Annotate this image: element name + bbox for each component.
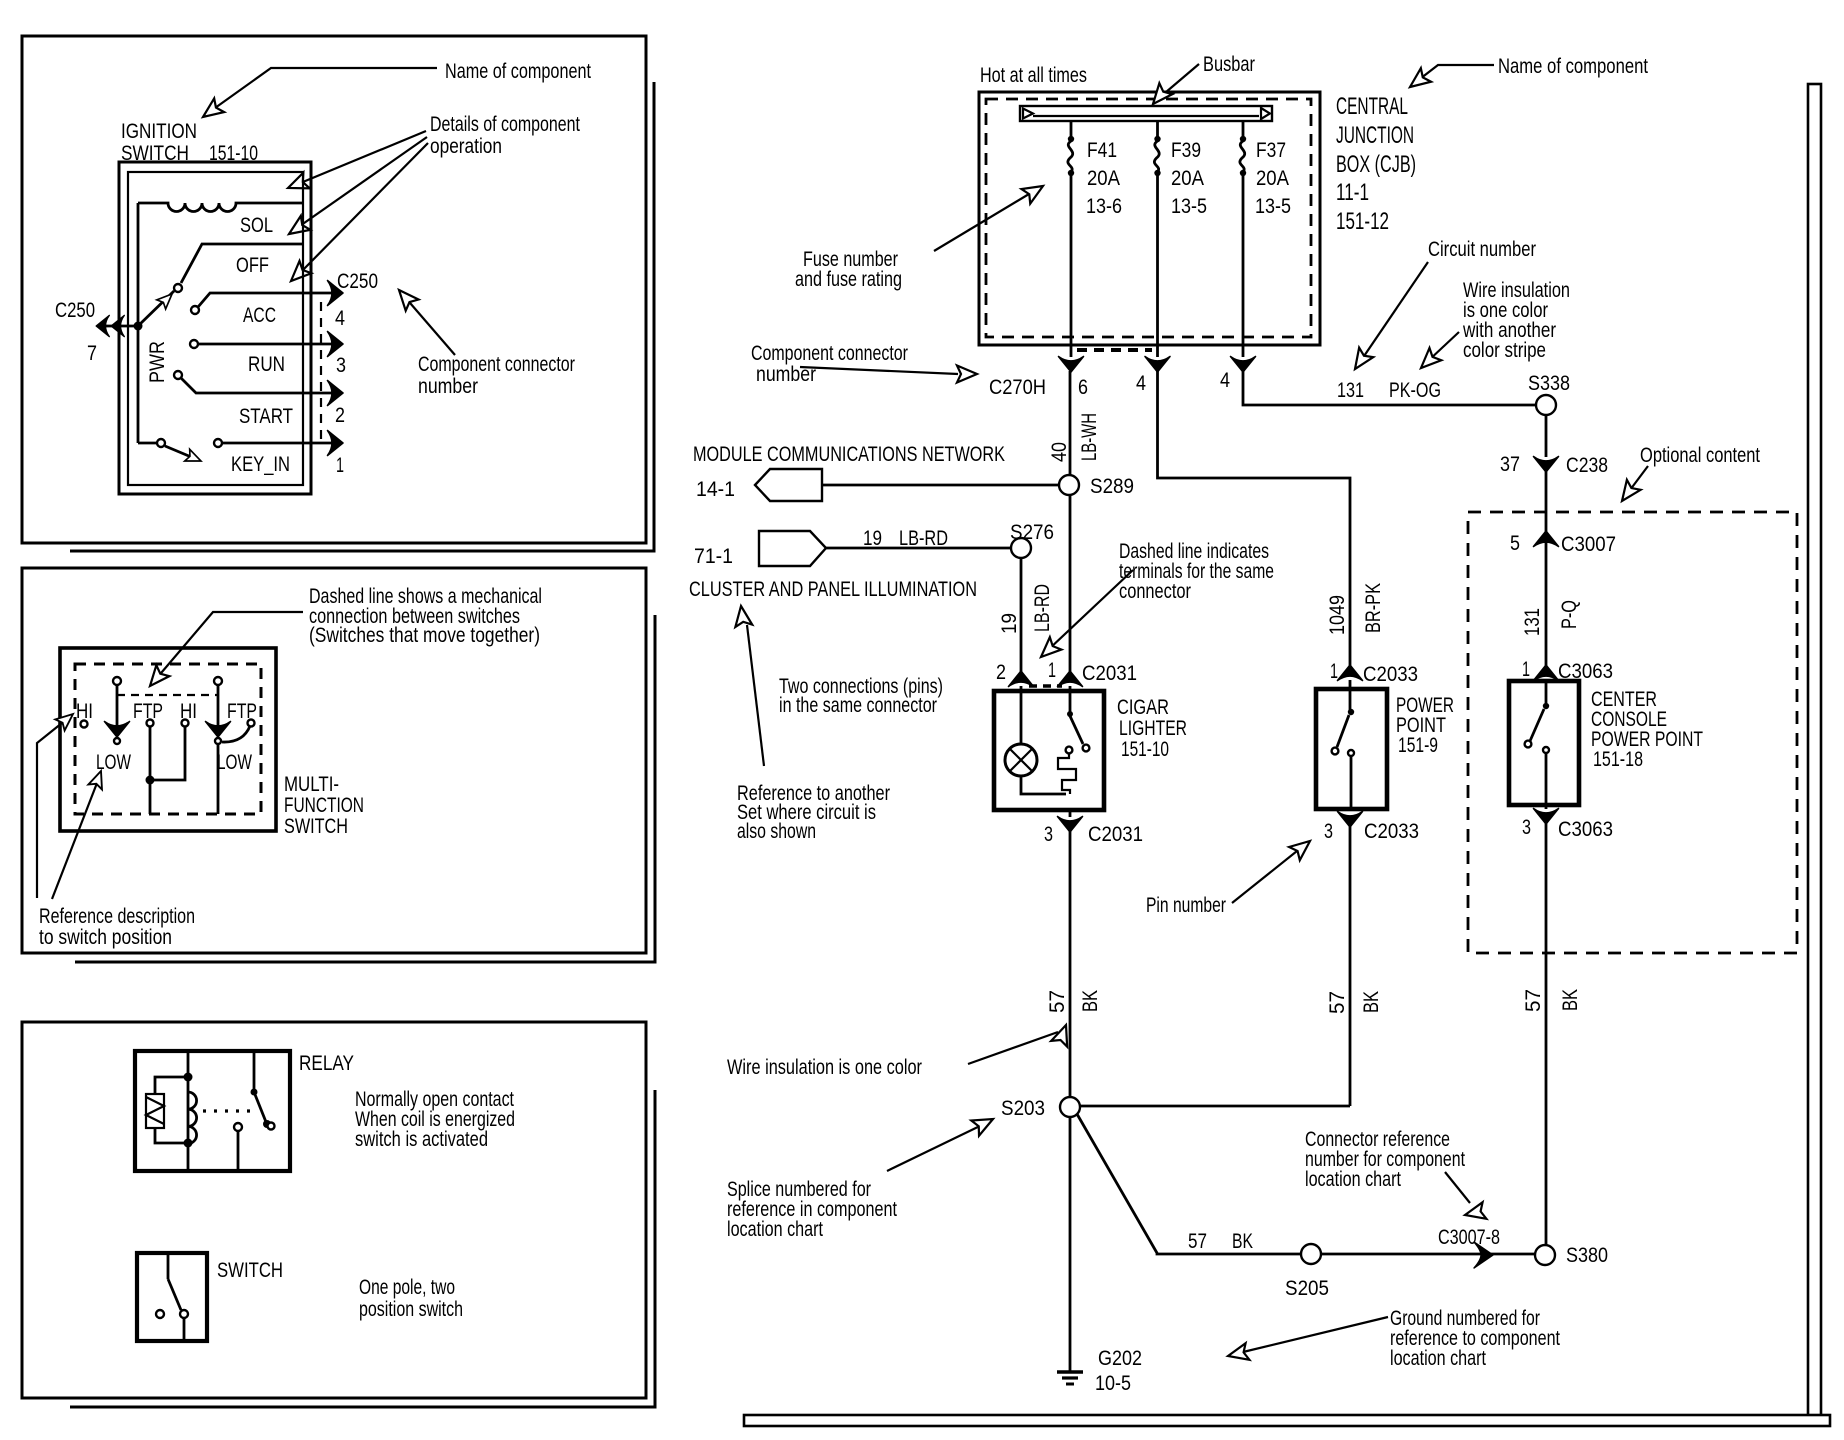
svg-text:1: 1: [1522, 658, 1530, 681]
svg-text:151-10: 151-10: [209, 142, 258, 165]
switch 1 top contact: [113, 677, 121, 685]
svg-text:C270H: C270H: [989, 376, 1046, 399]
svg-text:2: 2: [996, 661, 1006, 684]
relay coil bumps: [188, 1092, 197, 1144]
svg-text:OFF: OFF: [236, 254, 269, 277]
svg-text:switch is activated: switch is activated: [355, 1128, 488, 1151]
power point box: [1316, 689, 1387, 809]
svg-text:Component connector: Component connector: [751, 342, 908, 365]
svg-text:2: 2: [335, 404, 345, 427]
wire power point to S203 wire (57 BK): [1349, 826, 1352, 1106]
svg-text:S205: S205: [1285, 1277, 1329, 1300]
svg-text:G202: G202: [1098, 1347, 1142, 1370]
wire into power point: [1349, 680, 1352, 710]
svg-text:BK: BK: [1232, 1230, 1253, 1253]
svg-text:LB-RD: LB-RD: [1031, 584, 1054, 632]
wire down to S380 (57 BK): [1545, 823, 1548, 1244]
svg-text:connector: connector: [1119, 580, 1191, 603]
wire S203 diagonal to S205: [1077, 1114, 1301, 1254]
label 131 rotated: [1521, 608, 1544, 636]
power point switch arm: [1337, 715, 1349, 747]
wire from C270H pin 6 to S289: [1069, 371, 1072, 475]
leader arrow to CJB name: [1416, 65, 1494, 82]
leader arrow to fuse area: [934, 191, 1034, 251]
relay switch pivot dot: [251, 1089, 258, 1096]
relay coil top wire: [155, 1077, 188, 1094]
svg-text:5: 5: [1510, 532, 1520, 555]
label 57 rotated: [1522, 989, 1545, 1012]
HI 2 contact circle: [182, 720, 189, 727]
svg-text:RELAY: RELAY: [299, 1052, 354, 1075]
svg-text:4: 4: [1136, 372, 1146, 395]
FTP 2 contact circle: [248, 720, 255, 727]
svg-text:13-6: 13-6: [1086, 195, 1122, 218]
relay contact circle: [234, 1123, 242, 1131]
wire from F37 to splice S338 (131 PK-OG): [1243, 371, 1536, 405]
svg-text:C250: C250: [55, 299, 95, 322]
busbar: [1020, 106, 1272, 121]
svg-text:location chart: location chart: [1305, 1168, 1401, 1191]
svg-text:13-5: 13-5: [1255, 195, 1291, 218]
KEY_IN wire to pin 1: [222, 442, 338, 445]
svg-text:11-1: 11-1: [1336, 179, 1369, 206]
KEY_IN bus stub wire: [138, 442, 157, 445]
OFF contact wire: [181, 244, 303, 283]
OFF contact circle: [174, 284, 182, 292]
svg-text:JUNCTION: JUNCTION: [1336, 122, 1414, 149]
ignition switch inner box: [128, 172, 303, 485]
legend panel 1 shadow: [70, 82, 654, 551]
connector C250 dashed line: [320, 302, 322, 445]
mechanical connection dashed line: [117, 694, 218, 696]
svg-text:19: 19: [998, 613, 1021, 634]
leader arrow 1 (to HI): [37, 723, 62, 898]
svg-text:C3007: C3007: [1561, 533, 1616, 556]
svg-text:C2033: C2033: [1364, 820, 1419, 843]
switch arm: [1070, 716, 1083, 744]
junction dot: [184, 1139, 193, 1148]
label 1049 rotated: [1326, 595, 1349, 635]
START contact circle: [174, 371, 182, 379]
junction node (PWR / C250 pin 7): [134, 322, 143, 331]
svg-text:Hot at all times: Hot at all times: [980, 64, 1087, 87]
switch bottom wire: [183, 1318, 186, 1341]
switch pole wire: [167, 1253, 170, 1279]
wire cigar lighter to S203 (57 BK): [1069, 831, 1072, 1097]
heating element: [1058, 753, 1076, 794]
switch arm tip circle: [180, 1310, 188, 1318]
leader arrow to circuit number 131: [1360, 262, 1428, 362]
optional content dashed box: [1468, 512, 1797, 953]
svg-text:C3063: C3063: [1558, 818, 1613, 841]
svg-text:4: 4: [1220, 369, 1230, 392]
svg-text:Reference description: Reference description: [39, 905, 195, 928]
START wire to pin 2: [181, 378, 338, 393]
wire from F39 to power point: [1158, 371, 1351, 666]
svg-text:P-Q: P-Q: [1558, 600, 1581, 629]
svg-text:BOX (CJB): BOX (CJB): [1336, 151, 1416, 178]
svg-text:151-9: 151-9: [1398, 734, 1438, 757]
svg-text:BK: BK: [1559, 989, 1582, 1011]
wire below fuse F39: [1156, 175, 1159, 357]
svg-text:location chart: location chart: [727, 1218, 823, 1241]
leader arrow to optional box: [1627, 466, 1648, 494]
svg-text:MULTI-: MULTI-: [284, 773, 339, 796]
wire out of power point: [1350, 756, 1353, 809]
heating element contact: [1066, 747, 1073, 754]
switch 2 wire down: [217, 744, 220, 814]
switch 2 arm wire: [217, 685, 220, 728]
ACC wire to pin 4: [198, 293, 338, 307]
switch arm: [168, 1279, 181, 1310]
svg-text:BK: BK: [1079, 990, 1102, 1012]
svg-text:S276: S276: [1010, 521, 1054, 544]
svg-text:Name of component: Name of component: [1498, 55, 1648, 78]
svg-text:Optional content: Optional content: [1640, 444, 1760, 467]
junction dot: [184, 1073, 193, 1082]
label LB-RD rotated: [1031, 584, 1054, 632]
label 57 rotated: [1326, 991, 1349, 1014]
leader arrow 2 (to OFF contact): [297, 137, 427, 228]
svg-text:57: 57: [1522, 989, 1545, 1012]
svg-text:C238: C238: [1566, 454, 1608, 477]
svg-text:151-10: 151-10: [1121, 738, 1169, 761]
right panel bottom border: [744, 1415, 1830, 1426]
wire into box: [1545, 680, 1548, 703]
svg-text:S203: S203: [1001, 1097, 1045, 1120]
PWR rotated label: [146, 341, 169, 383]
relay switch arm: [254, 1092, 266, 1122]
svg-text:and fuse rating: and fuse rating: [795, 268, 902, 291]
wire C3007 down (131 P-Q): [1545, 546, 1548, 666]
switch S1 box: [137, 1253, 207, 1341]
svg-text:20A: 20A: [1171, 167, 1204, 190]
switch 1 arm wire: [116, 685, 119, 728]
splice S289: [1059, 475, 1079, 495]
svg-text:(Switches that move together): (Switches that move together): [309, 624, 540, 647]
leader arrow to pin 3: [1232, 847, 1302, 903]
svg-text:color stripe: color stripe: [1463, 339, 1546, 362]
svg-text:131: 131: [1337, 379, 1364, 402]
svg-text:Name of component: Name of component: [445, 60, 591, 83]
svg-text:in the same connector: in the same connector: [779, 694, 937, 717]
switch contact: [1543, 747, 1549, 753]
svg-text:F41: F41: [1087, 139, 1117, 162]
legend panel 2 frame: [22, 568, 646, 953]
svg-text:40: 40: [1048, 442, 1071, 462]
KEY_IN switch arm: [165, 446, 196, 459]
leader arrow to PK-OG: [1428, 332, 1459, 361]
multifunction switch dashed outline: [75, 664, 261, 814]
wire out of cigar lighter: [1069, 810, 1072, 817]
splice S203: [1060, 1097, 1080, 1117]
KEY_IN switch contact circle: [157, 439, 165, 447]
switch arm: [1530, 709, 1544, 741]
fuse F41 20A: [1070, 121, 1073, 138]
FTP contact circle: [147, 720, 154, 727]
svg-text:to switch position: to switch position: [39, 926, 172, 949]
wire to splice S276 (19 LB-RD): [826, 547, 1011, 550]
svg-text:14-1: 14-1: [696, 478, 735, 501]
leader arrow from Reference text to CLUSTER: [747, 625, 764, 766]
svg-text:3: 3: [336, 354, 346, 377]
svg-text:Circuit number: Circuit number: [1428, 238, 1536, 261]
svg-text:1049: 1049: [1326, 595, 1349, 635]
switch 2 top contact: [214, 677, 222, 685]
svg-text:MODULE COMMUNICATIONS NETWORK: MODULE COMMUNICATIONS NETWORK: [693, 443, 1005, 466]
svg-text:SWITCH: SWITCH: [121, 142, 189, 165]
svg-text:C2033: C2033: [1363, 663, 1418, 686]
junction dot: [146, 776, 155, 785]
svg-text:3: 3: [1522, 816, 1531, 839]
svg-text:131: 131: [1521, 608, 1544, 636]
svg-text:151-18: 151-18: [1593, 748, 1643, 771]
svg-text:CLUSTER AND PANEL ILLUMINATION: CLUSTER AND PANEL ILLUMINATION: [689, 578, 977, 601]
right panel right border: [1808, 84, 1821, 1418]
svg-text:20A: 20A: [1087, 167, 1120, 190]
HI contact circle: [81, 721, 88, 728]
leader arrow to ground: [1243, 1317, 1388, 1352]
cigar lighter box: [994, 691, 1104, 810]
HI 2 wire elbow: [150, 727, 185, 780]
leader arrow to C270H: [800, 367, 958, 374]
connector C270H dashed line: [1077, 348, 1152, 352]
switch 1 arm tip circle: [114, 738, 120, 744]
svg-text:C3007-8: C3007-8: [1438, 1226, 1500, 1249]
FTP wire down: [149, 727, 152, 814]
svg-text:57: 57: [1046, 990, 1069, 1013]
connector C2031 dashed line: [1029, 684, 1062, 688]
wire out of box: [1545, 753, 1548, 809]
svg-text:SWITCH: SWITCH: [217, 1259, 283, 1282]
svg-text:57: 57: [1326, 991, 1349, 1014]
leader arrow 3 (to ACC contact): [299, 143, 428, 274]
svg-text:position switch: position switch: [359, 1298, 463, 1321]
wire S289 down to C2031 pin 1: [1069, 495, 1072, 672]
svg-text:operation: operation: [430, 135, 502, 158]
power point contact: [1348, 750, 1354, 756]
lamp bottom wire: [1021, 776, 1066, 794]
switch wire from pin 1: [1069, 686, 1072, 712]
svg-text:LB-RD: LB-RD: [899, 527, 948, 550]
svg-text:C250: C250: [337, 270, 378, 293]
svg-text:7: 7: [87, 342, 97, 365]
svg-text:RUN: RUN: [248, 353, 285, 376]
relay arm tip dot and circle: [263, 1120, 271, 1128]
center console power point box: [1509, 681, 1579, 805]
relay K1 box: [135, 1051, 290, 1171]
svg-text:1: 1: [1048, 659, 1056, 682]
svg-text:One pole, two: One pole, two: [359, 1276, 455, 1299]
relay mechanical dotted link: [203, 1109, 250, 1112]
wire C238 to C3007: [1545, 471, 1548, 546]
svg-text:KEY_IN: KEY_IN: [231, 453, 290, 476]
wire to connector C250 pin 7: [100, 325, 138, 328]
label BK rotated: [1360, 991, 1383, 1013]
svg-text:CENTRAL: CENTRAL: [1336, 93, 1408, 120]
relay coil resistance element: [146, 1094, 164, 1128]
svg-text:Details of component: Details of component: [430, 113, 580, 136]
svg-text:ACC: ACC: [243, 304, 276, 327]
svg-text:number: number: [418, 375, 478, 398]
svg-text:4: 4: [335, 307, 345, 330]
svg-text:71-1: 71-1: [694, 545, 733, 568]
switch open contact circle: [156, 1310, 164, 1318]
leader arrow to mechanical dashed line: [156, 612, 303, 679]
svg-text:Busbar: Busbar: [1203, 53, 1255, 76]
switch pivot dot: [1543, 703, 1549, 709]
splice S276: [1011, 538, 1031, 558]
FTP 2 curved arm: [222, 726, 250, 742]
wire pin2 to lamp: [1020, 686, 1023, 744]
label BR-PK rotated: [1362, 583, 1385, 633]
svg-text:57: 57: [1188, 1230, 1207, 1253]
ground G202 symbol: [1057, 1370, 1083, 1373]
fuse F39 20A: [1156, 121, 1159, 138]
splice S205: [1301, 1244, 1321, 1264]
label BK rotated: [1079, 990, 1102, 1012]
leader arrow to 57 BK wire: [968, 1032, 1058, 1064]
svg-text:START: START: [239, 405, 293, 428]
leader arrow to busbar: [1159, 64, 1199, 98]
wire S203 to power point branch: [1080, 1105, 1350, 1108]
wire to splice S289 (40 LB-WH): [822, 484, 1059, 487]
svg-text:IGNITION: IGNITION: [121, 120, 197, 143]
svg-text:SOL: SOL: [240, 214, 273, 237]
svg-text:also shown: also shown: [737, 820, 816, 843]
label LB-WH rotated: [1078, 413, 1101, 461]
svg-text:3: 3: [1044, 823, 1053, 846]
leader arrow to C3007-8: [1445, 1172, 1470, 1203]
svg-text:Wire insulation is one color: Wire insulation is one color: [727, 1056, 922, 1079]
svg-text:13-5: 13-5: [1171, 195, 1207, 218]
svg-text:C2031: C2031: [1088, 823, 1143, 846]
svg-text:1: 1: [1330, 660, 1338, 683]
solenoid coil SOL: [138, 203, 303, 212]
legend panel 1 frame: [22, 36, 646, 543]
legend panel 3 frame: [22, 1022, 646, 1398]
leader arrow to C2031 dashed line: [1048, 570, 1133, 650]
central junction box CJB outline: [979, 92, 1320, 345]
off-page reference pentagon 14-1: [755, 469, 822, 501]
svg-text:S338: S338: [1528, 372, 1570, 395]
wire S205 to S380: [1321, 1253, 1534, 1256]
svg-text:Pin number: Pin number: [1146, 894, 1226, 917]
svg-text:PWR: PWR: [146, 341, 169, 383]
KEY_IN contact circle: [214, 439, 222, 447]
label 57 rotated: [1046, 990, 1069, 1013]
svg-text:SWITCH: SWITCH: [284, 815, 348, 838]
lamp (illumination bulb): [1005, 744, 1037, 776]
svg-text:S380: S380: [1566, 1244, 1608, 1267]
svg-text:F37: F37: [1256, 139, 1286, 162]
ignition switch U1 outer box: [119, 162, 311, 494]
label P-Q rotated: [1558, 600, 1581, 629]
svg-text:3: 3: [1324, 820, 1333, 843]
svg-text:F39: F39: [1171, 139, 1201, 162]
svg-text:PK-OG: PK-OG: [1389, 379, 1441, 402]
RUN contact circle: [190, 340, 198, 348]
svg-text:1: 1: [336, 454, 344, 477]
connector C3007-8 arrow on wire: [1474, 1242, 1493, 1268]
svg-text:Component connector: Component connector: [418, 353, 575, 376]
relay contact wire: [237, 1131, 240, 1171]
relay coil bus wire: [187, 1051, 190, 1171]
fuse F37 20A: [1242, 121, 1245, 138]
svg-text:CIGAR: CIGAR: [1117, 696, 1169, 719]
svg-text:6: 6: [1078, 376, 1088, 399]
svg-text:37: 37: [1500, 453, 1520, 476]
svg-text:19: 19: [863, 527, 882, 550]
leader arrow to ignition switch: [208, 68, 437, 113]
svg-text:BK: BK: [1360, 991, 1383, 1013]
svg-text:151-12: 151-12: [1336, 208, 1389, 235]
svg-text:LB-WH: LB-WH: [1078, 413, 1101, 461]
wire S276 down to C2031 pin 2: [1020, 558, 1023, 672]
svg-text:S289: S289: [1090, 475, 1134, 498]
wire below fuse F41: [1070, 175, 1073, 357]
svg-text:10-5: 10-5: [1095, 1372, 1131, 1395]
svg-text:LIGHTER: LIGHTER: [1119, 717, 1187, 740]
relay switch pole wire: [253, 1051, 256, 1090]
multifunction switch box: [60, 648, 276, 831]
off-page reference pentagon 71-1: [759, 531, 826, 566]
ACC contact circle: [191, 306, 199, 314]
svg-text:LOW: LOW: [217, 751, 252, 774]
RUN wire to pin 3: [198, 343, 338, 346]
legend panel 2 shadow: [75, 615, 655, 962]
CJB dashed outline: [986, 99, 1311, 337]
svg-text:location chart: location chart: [1390, 1347, 1486, 1370]
label 19 rotated: [998, 613, 1021, 634]
splice S338: [1536, 395, 1556, 415]
svg-text:20A: 20A: [1256, 167, 1289, 190]
svg-text:FUNCTION: FUNCTION: [284, 794, 364, 817]
svg-text:BR-PK: BR-PK: [1362, 583, 1385, 633]
switch 2 arm tip circle: [215, 738, 221, 744]
splice S380: [1535, 1245, 1555, 1265]
svg-text:C2031: C2031: [1082, 662, 1137, 685]
wire S203 to ground G202: [1069, 1117, 1072, 1371]
wire below fuse F37: [1242, 175, 1245, 357]
leader arrow to C250: [404, 296, 455, 355]
leader arrow 1 (to coil): [298, 131, 426, 184]
relay coil bottom wire: [155, 1128, 188, 1143]
label 40 rotated: [1048, 442, 1071, 462]
ignition switch left bus wire: [137, 203, 140, 443]
label BK rotated: [1559, 989, 1582, 1011]
legend panel 3 shadow: [70, 1090, 655, 1407]
wire S338 to C238: [1545, 415, 1548, 457]
leader arrow to S203 (splice numbered): [887, 1124, 984, 1171]
PWR switch arm: [138, 291, 174, 326]
leader arrow 2 (to LOW): [52, 783, 97, 899]
